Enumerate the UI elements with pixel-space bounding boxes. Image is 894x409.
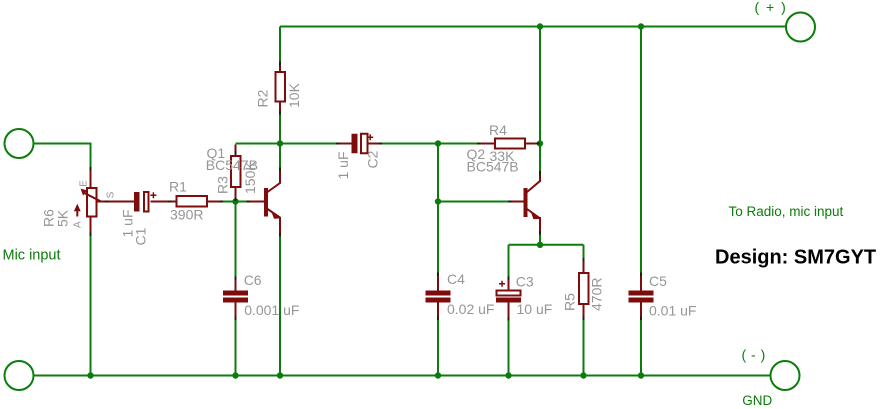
svg-text:( - ): ( - ) — [742, 347, 766, 363]
svg-text:R3: R3 — [215, 176, 231, 194]
svg-text:R2: R2 — [254, 89, 270, 107]
svg-text:C6: C6 — [244, 272, 262, 288]
svg-text:Design: SM7GYT: Design: SM7GYT — [715, 247, 876, 269]
svg-text:10K: 10K — [286, 82, 302, 108]
svg-text:A: A — [72, 221, 83, 228]
svg-text:5K: 5K — [55, 209, 71, 227]
svg-text:C1: C1 — [132, 227, 148, 245]
svg-text:C5: C5 — [649, 273, 667, 289]
svg-text:C2: C2 — [364, 150, 380, 168]
svg-text:R1: R1 — [169, 179, 187, 195]
svg-text:150K: 150K — [242, 161, 258, 194]
svg-text:S: S — [105, 191, 116, 198]
svg-text:1 uF: 1 uF — [335, 151, 351, 179]
svg-text:C4: C4 — [447, 271, 465, 287]
svg-text:To Radio, mic input: To Radio, mic input — [729, 204, 844, 219]
svg-text:10 uF: 10 uF — [517, 301, 553, 317]
svg-text:390R: 390R — [170, 207, 203, 223]
svg-text:R5: R5 — [561, 293, 577, 311]
svg-text:GND: GND — [742, 393, 772, 408]
svg-text:C3: C3 — [516, 274, 534, 290]
svg-text:( + ): ( + ) — [755, 0, 788, 15]
svg-text:470R: 470R — [588, 278, 604, 311]
svg-text:E: E — [79, 180, 90, 187]
svg-text:R4: R4 — [489, 122, 507, 138]
svg-text:0.001 uF: 0.001 uF — [244, 302, 299, 318]
svg-text:0.01 uF: 0.01 uF — [649, 302, 696, 318]
svg-text:Mic input: Mic input — [3, 248, 61, 264]
svg-text:0.02 uF: 0.02 uF — [447, 301, 494, 317]
svg-text:BC547B: BC547B — [467, 158, 519, 174]
